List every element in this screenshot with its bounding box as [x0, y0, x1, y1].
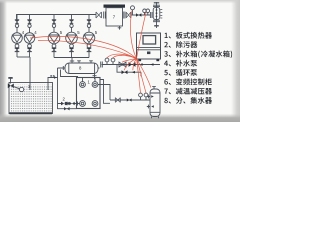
legend line: 8、分、集水器	[164, 97, 212, 104]
return arrowhead	[54, 76, 57, 78]
flange on cylinder inlet	[70, 60, 74, 62]
float valve body	[8, 83, 14, 88]
wire: vertical pipe to strainer chain	[57, 68, 59, 104]
control wire to steam gauge	[130, 11, 136, 59]
float valve supply stub	[10, 78, 12, 83]
pump 4a make-up pump	[12, 33, 23, 44]
wire: bypass below strainer	[58, 104, 77, 109]
desuperheater top bar	[104, 5, 126, 8]
black valve on pipe A	[129, 62, 136, 67]
control wire to pump row lower	[38, 40, 137, 58]
control wire to pipe B arrow	[133, 59, 137, 71]
collector left port upper	[147, 95, 150, 99]
float arm	[13, 86, 20, 89]
desuperheater drain stub	[118, 26, 122, 30]
water collector vessel	[150, 87, 160, 119]
cylinder right-top stub	[89, 61, 93, 63]
control wire to return gauge 2	[137, 59, 147, 93]
valve above pump 5b	[69, 15, 73, 33]
legend line: 4、补水泵	[164, 60, 197, 67]
wire: suction run 4a	[17, 56, 30, 58]
gauge R2	[144, 93, 148, 100]
pressure reducing riser assembly	[153, 2, 160, 28]
legend line: 5、循环泵	[164, 69, 197, 76]
strainer chain pipe	[58, 102, 80, 106]
hx port bottom-right	[92, 101, 98, 107]
cylinder vent stub	[77, 61, 81, 63]
frame top band	[0, 0, 240, 4]
make-up water tank	[9, 83, 53, 114]
pump 5b circulation pump	[66, 32, 78, 44]
hx port top-right	[92, 82, 98, 88]
frame left band	[0, 0, 7, 122]
bypass valve	[64, 107, 70, 110]
valve on pipe B	[122, 70, 128, 74]
water distributor cylinder	[65, 63, 98, 74]
hx port top-left	[80, 82, 86, 88]
wire: discharge run 5c	[72, 57, 89, 59]
float ball	[19, 87, 23, 91]
control wire to gauge A1	[107, 54, 137, 58]
legend line: 7、减温减压器	[164, 88, 212, 95]
flow arrow on pipe B	[132, 71, 135, 74]
pump 5a circulation pump	[48, 32, 60, 44]
gauge R1	[139, 93, 143, 100]
hx port stems	[83, 78, 96, 82]
N valve before desuperheater	[96, 12, 101, 18]
legend text	[164, 32, 232, 104]
valve below pump 4b	[27, 43, 32, 57]
riser bolt dots	[156, 9, 158, 17]
joint dot	[67, 102, 69, 104]
wire: cylinder bottom-right nozzle to hx	[93, 74, 97, 80]
valve in chain right	[69, 102, 74, 105]
pump 5c circulation pump	[83, 32, 95, 44]
control cabinet 6	[137, 33, 161, 61]
valve in chain left	[61, 102, 67, 106]
wire: make-up pump suction riser into tank	[29, 57, 31, 90]
valve below pump 5c	[87, 44, 92, 58]
control wire to return gauge 1	[137, 59, 141, 93]
valve above pump 5a	[52, 15, 56, 33]
wire: hx outlet riser 2	[98, 85, 110, 101]
valve right of desuperheater	[126, 12, 131, 18]
tank water dots	[10, 85, 52, 113]
desuperheater left flange	[104, 12, 106, 19]
wire: cylinder left nozzle to down pipe	[58, 66, 66, 70]
valve below pump 5a	[52, 44, 57, 58]
desuperheater body 7	[106, 8, 123, 26]
valve below pump 5b	[69, 44, 74, 58]
return tick marks	[50, 75, 54, 77]
wire: hx outlet riser 1	[100, 80, 110, 104]
valve below pump 4a	[15, 43, 20, 57]
small black valve on return pipe	[127, 98, 132, 101]
wire: discharge run 5a	[54, 57, 72, 59]
control wire to pipe B valve	[124, 59, 137, 71]
control wire to pump row	[30, 36, 137, 58]
wire: hx top-left feed	[61, 70, 79, 77]
component number labels	[22, 14, 116, 101]
gauge A2	[111, 58, 115, 64]
plate heat exchanger body	[77, 78, 101, 109]
hx port bottom-left	[80, 101, 86, 107]
red control wiring fan	[30, 11, 151, 93]
valve above pump 4a	[15, 15, 19, 33]
control wire to double gauge	[137, 13, 147, 59]
legend line: 3、补水箱(冷凝水箱)	[164, 51, 232, 59]
valve above pump 4b	[27, 15, 31, 33]
legend line: 1、板式换热器	[165, 32, 212, 39]
control wire to collector	[137, 59, 151, 88]
frame right band	[231, 0, 240, 122]
wire: pipe right of desuperheater	[131, 14, 151, 16]
dirt strainer	[65, 102, 68, 105]
collector port arrows	[151, 95, 154, 107]
flow arrow on pipe A	[150, 63, 153, 66]
wire: return pipe to collector	[110, 99, 150, 101]
wire: circulation merge drop into cylinder	[71, 58, 73, 64]
frame bottom band	[0, 114, 240, 123]
gauge on steam pipe	[131, 6, 135, 15]
riser bolt ticks	[160, 10, 162, 19]
N valve on return pipe	[115, 98, 120, 103]
valve above pump 5c	[87, 15, 91, 33]
control valve on pipe A	[119, 62, 126, 67]
control wire to control valve	[122, 59, 137, 63]
wire: top steam header	[17, 15, 97, 20]
black valve on steam pipe	[136, 13, 141, 17]
legend line: 6、变频控制柜	[164, 78, 211, 85]
wire: hot water supply pipe A	[98, 62, 160, 69]
flanges before riser	[150, 12, 152, 18]
collector left port lower	[147, 105, 150, 109]
wire: bypass pipe B	[117, 65, 141, 77]
desuperheater right flange	[123, 12, 125, 19]
control wire to gauge A2	[113, 55, 137, 58]
legend line: 2、除污器	[164, 41, 197, 48]
double gauge	[143, 9, 150, 15]
wire: tank return line	[48, 78, 58, 91]
gauge A1	[105, 58, 109, 64]
joint dot on pipe A	[141, 63, 143, 65]
pump 4b make-up pump	[24, 33, 35, 44]
